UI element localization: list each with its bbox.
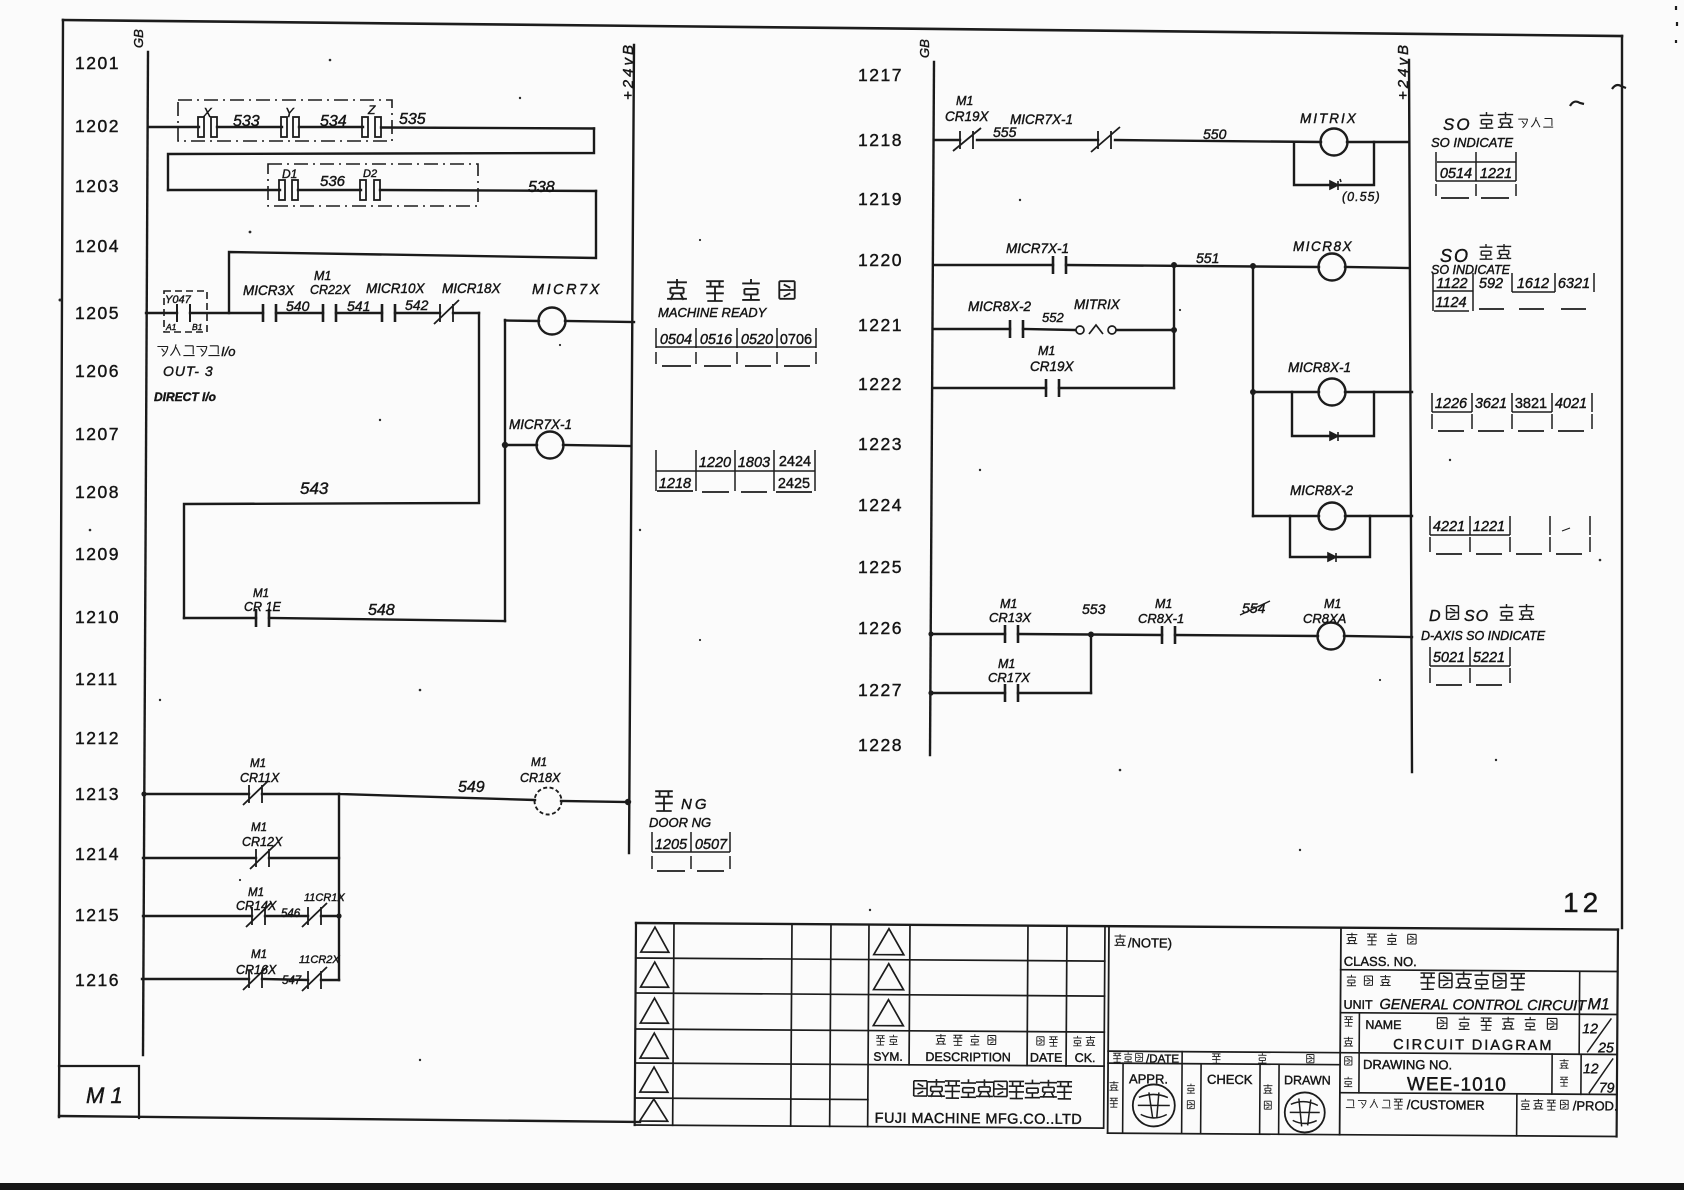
svg-text:M1: M1 — [253, 588, 269, 600]
wire MITRIX diode loop — [1294, 142, 1374, 185]
svg-text:DATE: DATE — [1030, 1051, 1063, 1065]
junction dot 1220 A — [1171, 262, 1177, 268]
svg-text:551: 551 — [1196, 250, 1219, 266]
drawing no labels — [1344, 1057, 1615, 1097]
svg-text:M1: M1 — [250, 758, 266, 770]
svg-text:535: 535 — [399, 111, 426, 128]
svg-text:1122: 1122 — [1436, 276, 1467, 292]
wire rung 1227 — [931, 692, 1091, 694]
svg-text:533: 533 — [233, 113, 260, 130]
contact M1 CR19X (NO) rung1222 — [1046, 379, 1059, 397]
svg-text:M1: M1 — [1155, 597, 1172, 611]
contact M1 CR14X (NC) — [246, 903, 271, 927]
diode MICR8X-1 — [1330, 432, 1338, 441]
wire rung 1202 — [148, 127, 594, 129]
svg-text:MICR10X: MICR10X — [366, 281, 426, 296]
svg-text:M1: M1 — [1038, 344, 1055, 358]
stamp DRAWN — [1285, 1092, 1325, 1132]
thermal contact MITRIX rung1221 — [1076, 325, 1116, 334]
wire rung 1215 — [143, 915, 339, 917]
svg-text:MICR3X: MICR3X — [243, 283, 295, 298]
svg-text:NG: NG — [681, 796, 710, 813]
date label cell — [1113, 1052, 1179, 1065]
wire rung 1210 / 548 — [184, 618, 505, 621]
svg-text:CR8X-1: CR8X-1 — [1138, 611, 1184, 626]
svg-text:CIRCUIT DIAGRAM: CIRCUIT DIAGRAM — [1393, 1037, 1553, 1054]
contact M1 CR17X (NO) rung1227 — [1005, 684, 1018, 702]
svg-text:WEE-1010: WEE-1010 — [1407, 1074, 1507, 1096]
svg-text:D: D — [1429, 608, 1441, 625]
wire rung 1205 — [146, 312, 479, 314]
table MACHINE READY refs — [656, 328, 816, 366]
svg-text:M1: M1 — [531, 757, 547, 769]
svg-text:1226: 1226 — [1435, 396, 1468, 412]
contact MICR3X — [263, 304, 276, 322]
contact M1 CR12X (NC) — [250, 845, 275, 869]
svg-text:M1: M1 — [1324, 597, 1341, 611]
wire rung 1222 — [934, 387, 1174, 389]
svg-text:CR19X: CR19X — [1030, 359, 1075, 374]
svg-text:M1: M1 — [251, 949, 267, 961]
svg-text:SO: SO — [1464, 608, 1489, 625]
svg-text:DRAWING NO.: DRAWING NO. — [1363, 1057, 1452, 1073]
svg-text:CR12X: CR12X — [242, 835, 283, 849]
contact M1 CR13X (NO) rung1226 — [1005, 625, 1018, 643]
wire coil MICR7X row — [505, 321, 634, 323]
svg-text:FUJI MACHINE MFG.CO..LTD: FUJI MACHINE MFG.CO..LTD — [875, 1111, 1083, 1128]
svg-text:CR18X: CR18X — [520, 771, 561, 785]
contact MICR7X-1 (NC) rung1218 — [1091, 127, 1120, 152]
svg-text:1228: 1228 — [858, 735, 903, 755]
svg-text:1204: 1204 — [75, 236, 120, 256]
svg-text:M1: M1 — [1587, 996, 1609, 1013]
svg-text:1226: 1226 — [858, 618, 903, 638]
contact D2 (box style) — [360, 180, 380, 200]
svg-text:CR8XA: CR8XA — [1303, 611, 1346, 626]
svg-text:1209: 1209 — [75, 544, 120, 564]
dashed enclosure D1 D2 — [268, 164, 478, 206]
revision table horizontals — [635, 958, 1105, 1128]
svg-text:1206: 1206 — [75, 361, 120, 381]
wire rung 1213 — [144, 794, 628, 802]
svg-text:11CR2X: 11CR2X — [299, 954, 340, 966]
svg-text:DESCRIPTION: DESCRIPTION — [925, 1050, 1011, 1065]
paper speckles — [59, 59, 1602, 1062]
svg-text:1220: 1220 — [699, 455, 731, 471]
coil MICR7X — [539, 308, 566, 335]
company name kanji — [914, 1079, 1072, 1099]
junction dot 1226 bus — [928, 631, 933, 636]
svg-text:MICR8X-2: MICR8X-2 — [968, 299, 1032, 314]
svg-text:1221: 1221 — [1480, 166, 1512, 182]
svg-text:MICR18X: MICR18X — [442, 281, 502, 296]
junction dot 1213 bus — [141, 791, 146, 796]
svg-text:547: 547 — [282, 975, 302, 987]
svg-text:1214: 1214 — [75, 844, 120, 864]
svg-text:1211: 1211 — [75, 669, 119, 689]
svg-text:MITRIX: MITRIX — [1300, 111, 1358, 126]
svg-text:1227: 1227 — [858, 680, 903, 700]
wire rung 1214 — [143, 857, 339, 859]
junction dot 1226 — [1088, 632, 1094, 638]
svg-text:GENERAL CONTROL CIRCUIT: GENERAL CONTROL CIRCUIT — [1379, 997, 1587, 1014]
svg-text:MICR8X-1: MICR8X-1 — [1288, 360, 1351, 375]
contact Z (box style) — [362, 117, 381, 137]
svg-text:543: 543 — [300, 479, 329, 498]
svg-text:Y: Y — [285, 105, 295, 120]
note label — [1114, 934, 1172, 950]
svg-text:D1: D1 — [282, 167, 297, 181]
svg-text:553: 553 — [1082, 601, 1106, 617]
svg-text:1208: 1208 — [75, 482, 120, 502]
svg-text:11CR1X: 11CR1X — [304, 892, 345, 904]
svg-text:/DATE: /DATE — [1146, 1053, 1179, 1065]
svg-text:SO INDICATE: SO INDICATE — [1431, 263, 1511, 277]
svg-text:SYM.: SYM. — [873, 1050, 902, 1064]
svg-text:3821: 3821 — [1515, 396, 1547, 412]
svg-text:4021: 4021 — [1555, 396, 1587, 412]
contact M1 CR1E — [256, 609, 269, 627]
svg-text:1222: 1222 — [858, 374, 903, 394]
contact Y (box style) — [281, 117, 299, 137]
stray mark top right — [1570, 6, 1677, 106]
svg-text:1210: 1210 — [75, 607, 120, 627]
svg-text:+24vB: +24vB — [1395, 42, 1412, 100]
revision triangles left column — [640, 927, 669, 1121]
table 5021/5221 — [1430, 647, 1510, 685]
contact MICR8X-2 (NO) rung1221 — [1010, 320, 1023, 338]
svg-text:1207: 1207 — [75, 424, 120, 444]
svg-text:M1: M1 — [251, 822, 267, 834]
svg-text:1205: 1205 — [75, 303, 120, 323]
svg-text:1203: 1203 — [75, 176, 120, 196]
wire branch vertical 1213-1216 — [338, 794, 340, 980]
svg-text:1221: 1221 — [1473, 519, 1505, 535]
contact M1CR22X — [323, 304, 336, 322]
contact MICR7X-1 (NO) rung1220 — [1053, 256, 1066, 274]
svg-text:DIRECT I/o: DIRECT I/o — [154, 390, 216, 404]
svg-text:1218: 1218 — [659, 476, 691, 492]
svg-text:MICR7X-1: MICR7X-1 — [1010, 112, 1073, 127]
junction dot coil CR18X end — [625, 799, 631, 805]
junction dot 1227 bus — [928, 690, 933, 695]
header DESCRIPTION cell — [925, 1034, 1011, 1065]
header SYM cell — [873, 1035, 903, 1064]
svg-text:1213: 1213 — [75, 784, 120, 804]
junction dot MICR8X-1 — [1250, 389, 1256, 395]
wire coil MICR8X-2 row — [1253, 515, 1412, 517]
svg-text:1223: 1223 — [858, 434, 903, 454]
svg-text:12: 12 — [1583, 1060, 1599, 1076]
svg-text:+24vB: +24vB — [620, 42, 637, 100]
svg-text:546: 546 — [281, 908, 301, 920]
wire 1205 to 543 — [184, 313, 479, 618]
wire MICR8X-1 diode loop — [1292, 392, 1374, 436]
svg-text:0520: 0520 — [741, 332, 773, 348]
contact M1 CR19X (NC) rung1218 — [953, 128, 981, 151]
contact X (box style) — [198, 117, 217, 137]
svg-text:1216: 1216 — [75, 970, 120, 990]
bottom scan strip — [0, 1183, 1684, 1190]
svg-text:MICR7X-1: MICR7X-1 — [1006, 241, 1069, 256]
svg-text:0706: 0706 — [780, 332, 812, 348]
wire branch B vertical — [1252, 266, 1254, 516]
svg-text:M1: M1 — [956, 94, 973, 108]
header DATE cell — [1030, 1037, 1063, 1065]
svg-text:25: 25 — [1597, 1039, 1614, 1055]
svg-text:/CUSTOMER: /CUSTOMER — [1407, 1097, 1485, 1113]
coil MICR8X-1 — [1319, 379, 1346, 406]
svg-text:1217: 1217 — [858, 65, 903, 85]
svg-text:0516: 0516 — [700, 332, 733, 348]
svg-text:1124: 1124 — [1435, 295, 1466, 311]
wire rung 1226 — [931, 634, 1412, 637]
svg-text:D2: D2 — [363, 168, 377, 180]
contact MICR18X (NC) — [434, 300, 459, 324]
approval cell labels — [1109, 1071, 1331, 1109]
name labels — [1344, 1016, 1615, 1056]
wire branch 1227 vertical — [1090, 634, 1092, 693]
junction dot 1221 A — [1171, 327, 1177, 333]
svg-text:3621: 3621 — [1475, 396, 1507, 412]
strike 554 — [1240, 601, 1270, 615]
svg-text:MICR7X-1: MICR7X-1 — [509, 417, 572, 432]
svg-text:M1: M1 — [248, 887, 264, 899]
svg-text:MICR8X-2: MICR8X-2 — [1290, 483, 1354, 498]
node SO indicate timer heading — [1443, 112, 1553, 134]
coil M1 CR8XA — [1318, 623, 1345, 650]
wire MICR8X-2 diode loop — [1290, 516, 1370, 557]
svg-text:0504: 0504 — [660, 332, 692, 348]
label daIrekuto I/O — [157, 344, 235, 359]
diode MICR8X-2 — [1328, 553, 1336, 562]
svg-text:4221: 4221 — [1433, 519, 1465, 535]
wire 1203 loop down — [229, 191, 596, 313]
svg-text:CHECK: CHECK — [1207, 1072, 1253, 1087]
svg-text:(0.55): (0.55) — [1342, 190, 1381, 204]
contact 11CR2X (NC) — [302, 967, 327, 991]
svg-text:GB: GB — [917, 39, 932, 58]
svg-text:CR22X: CR22X — [310, 283, 351, 297]
svg-text:M1: M1 — [314, 269, 331, 283]
svg-text:540: 540 — [286, 298, 310, 314]
contact 11CR1X (NC) — [302, 903, 327, 927]
svg-text:X: X — [202, 105, 213, 120]
svg-text:6321: 6321 — [1558, 276, 1590, 292]
svg-text:SO INDICATE: SO INDICATE — [1431, 135, 1513, 150]
svg-text:1221: 1221 — [858, 315, 903, 335]
svg-text:M 1: M 1 — [86, 1083, 123, 1108]
title block outline — [636, 923, 1618, 930]
stamp APPR — [1133, 1084, 1175, 1126]
svg-text:OUT- 3: OUT- 3 — [163, 363, 214, 379]
Y047 direct I/O box — [164, 291, 207, 332]
svg-text:534: 534 — [320, 113, 347, 130]
svg-text:1202: 1202 — [75, 116, 120, 136]
outer frame top — [63, 20, 1622, 36]
svg-text:542: 542 — [405, 297, 429, 313]
svg-text:538: 538 — [528, 179, 555, 196]
coil M1 CR18X — [535, 788, 562, 815]
svg-text:2424: 2424 — [779, 454, 811, 470]
diode MITRIX — [1330, 179, 1341, 190]
svg-text:1201: 1201 — [75, 53, 120, 73]
svg-text:CR14X: CR14X — [236, 899, 277, 913]
svg-text:UNIT: UNIT — [1343, 998, 1373, 1012]
svg-text:MITRIX: MITRIX — [1074, 297, 1121, 312]
svg-text:/PROD.: /PROD. — [1573, 1098, 1618, 1113]
svg-text:12: 12 — [1563, 887, 1602, 918]
svg-text:541: 541 — [347, 298, 370, 314]
outer frame right — [1621, 36, 1623, 928]
svg-text:CR17X: CR17X — [988, 670, 1031, 685]
revision table verticals — [673, 923, 1105, 1128]
svg-text:79: 79 — [1599, 1079, 1615, 1095]
svg-text:CLASS. NO.: CLASS. NO. — [1344, 954, 1417, 969]
table 0514/1221 — [1436, 152, 1516, 198]
svg-text:5021: 5021 — [1433, 650, 1465, 666]
outer frame left — [59, 20, 63, 1117]
svg-text:12: 12 — [1582, 1020, 1598, 1036]
svg-text:1218: 1218 — [858, 130, 903, 150]
svg-text:I/o: I/o — [221, 344, 235, 359]
svg-text:592: 592 — [1479, 276, 1503, 292]
coil MITRIX — [1321, 129, 1348, 156]
bus GB right — [930, 62, 934, 755]
header CK cell — [1073, 1036, 1096, 1065]
svg-text:Z: Z — [367, 103, 376, 117]
svg-text:0507: 0507 — [695, 837, 728, 853]
wire branch A vertical — [1173, 265, 1175, 388]
wire 1202 loop down — [168, 129, 594, 191]
contact MICR10X — [382, 304, 395, 322]
node SO indicate heading 2 — [1440, 244, 1511, 266]
table 1122/592/1612/6321 — [1433, 273, 1594, 311]
svg-text:/NOTE): /NOTE) — [1128, 935, 1172, 950]
node DOOR NG heading — [655, 791, 709, 813]
svg-text:1612: 1612 — [1517, 276, 1549, 292]
svg-text:CR16X: CR16X — [236, 963, 277, 977]
right column rows — [1340, 970, 1618, 1137]
svg-text:MICR7X: MICR7X — [532, 282, 602, 298]
svg-text:1212: 1212 — [75, 728, 120, 748]
bus +24VB left — [629, 45, 634, 853]
bus GB left — [143, 52, 148, 1055]
M1 corner box — [59, 1066, 139, 1118]
svg-text:548: 548 — [368, 602, 395, 619]
bus +24VB right — [1409, 60, 1412, 772]
right column sub dividers — [1359, 970, 1582, 1136]
wire rung 1203 — [168, 190, 596, 191]
junction dot 543 riser — [502, 442, 508, 448]
contact D1 (box style) — [279, 180, 298, 200]
svg-text:NAME: NAME — [1365, 1018, 1401, 1032]
junction dot rung1215 end — [336, 913, 341, 918]
wire rung 1218 — [934, 140, 1409, 142]
svg-text:GB: GB — [131, 29, 146, 48]
svg-text:552: 552 — [1042, 310, 1064, 325]
svg-text:1225: 1225 — [858, 557, 903, 577]
svg-text:Y047: Y047 — [165, 294, 192, 306]
year month day header — [1212, 1053, 1314, 1064]
svg-text:CK.: CK. — [1075, 1051, 1096, 1065]
table DOOR NG refs — [652, 832, 730, 871]
svg-text:1215: 1215 — [75, 905, 120, 925]
junction dot 1220 B — [1250, 263, 1256, 269]
coil MICR8X — [1319, 254, 1346, 281]
svg-text:0514: 0514 — [1440, 166, 1472, 182]
svg-text:1205: 1205 — [655, 837, 688, 853]
svg-text:M1: M1 — [998, 657, 1015, 671]
table 1220/1803/2424 — [656, 450, 815, 492]
class no labels — [1344, 933, 1417, 969]
node MACHINE READY heading kanji — [667, 279, 795, 301]
svg-text:CR13X: CR13X — [989, 610, 1032, 625]
svg-text:CR19X: CR19X — [945, 109, 990, 124]
unit labels — [1343, 971, 1610, 1015]
contact M1 CR8X-1 (NO) rung1226 — [1162, 626, 1175, 644]
outer frame bottom — [59, 1116, 640, 1122]
svg-text:CR11X: CR11X — [240, 771, 280, 785]
svg-text:MICR8X: MICR8X — [1293, 239, 1353, 254]
wire coil MICR8X-1 row — [1253, 391, 1412, 393]
dashed enclosure X Y Z — [178, 100, 392, 141]
customer labels — [1346, 1097, 1618, 1114]
svg-text:DOOR NG: DOOR NG — [649, 815, 711, 830]
wire rung 1220 — [934, 265, 1409, 268]
wire rung 1221 — [934, 329, 1174, 330]
wire riser to coils — [504, 320, 506, 621]
svg-text:CR 1E: CR 1E — [244, 600, 281, 614]
svg-text:M1: M1 — [1000, 597, 1017, 611]
contact M1 CR16X (NC) — [243, 966, 268, 990]
svg-text:5221: 5221 — [1473, 650, 1505, 666]
revision triangles right column — [873, 929, 904, 1026]
node D-axis SO indicate heading — [1429, 604, 1534, 625]
svg-text:DRAWN: DRAWN — [1284, 1073, 1331, 1087]
svg-text:B1: B1 — [192, 322, 203, 332]
svg-text:549: 549 — [458, 779, 485, 796]
wire rung 1216 — [142, 979, 339, 980]
contact M1 CR11X (NC) — [243, 781, 268, 805]
table 1226/3621/3821/4021 — [1432, 393, 1592, 431]
svg-text:550: 550 — [1203, 126, 1227, 142]
table 4221/1221 — [1430, 516, 1590, 554]
svg-text:SO: SO — [1443, 115, 1472, 134]
coil MICR7X-1 — [537, 432, 564, 459]
svg-text:1803: 1803 — [738, 455, 770, 471]
svg-text:1220: 1220 — [858, 250, 903, 270]
svg-text:D-AXIS SO INDICATE: D-AXIS SO INDICATE — [1421, 629, 1546, 643]
svg-text:2425: 2425 — [778, 476, 810, 492]
svg-text:MACHINE READY: MACHINE READY — [658, 305, 768, 320]
svg-text:1224: 1224 — [858, 495, 903, 515]
wire coil MICR7X-1 row — [505, 445, 631, 446]
note & approval area — [1108, 926, 1109, 1133]
coil MICR8X-2 — [1319, 503, 1346, 530]
svg-text:536: 536 — [320, 173, 346, 190]
svg-text:A1: A1 — [165, 322, 177, 332]
svg-text:1219: 1219 — [858, 189, 903, 209]
